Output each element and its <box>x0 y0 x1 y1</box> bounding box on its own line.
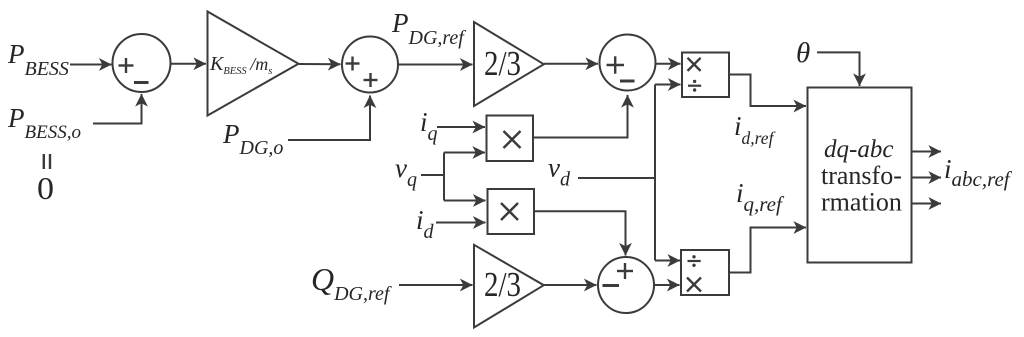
wire M1 output to S3 bottom <box>533 95 628 138</box>
wire M2 output to S4 top <box>534 211 626 255</box>
plus sign left in S2 <box>346 57 360 71</box>
wire v_d vertical bus <box>654 85 656 261</box>
wire v_d to divider D2 input <box>655 260 680 262</box>
gain block 2/3 upper <box>474 22 544 106</box>
wire output b <box>912 177 941 179</box>
divider block D2 <box>681 250 729 295</box>
svg-text:id: id <box>416 205 435 243</box>
wire P_DG,o to S2 <box>288 96 370 141</box>
divide sign in D1 <box>688 80 701 92</box>
svg-text:2/3: 2/3 <box>484 265 521 304</box>
times sign in D2 <box>687 278 701 292</box>
svg-text:θ: θ <box>796 37 810 69</box>
minus sign in S1 <box>134 81 149 84</box>
wire D2 output to dq-abc block <box>729 228 806 273</box>
svg-text:rmation: rmation <box>821 188 902 217</box>
summing junction S3 <box>600 35 656 91</box>
wire S4 to divider D2 <box>654 284 680 286</box>
divider block D1 <box>682 53 729 98</box>
wire v_d to divider D1 input <box>655 84 681 86</box>
wire gain 2/3 to summing junction S3 <box>544 63 598 65</box>
wire output a <box>912 151 941 153</box>
wire gain 2/3 lower to summing junction S4 <box>544 284 597 286</box>
gain block K_BESS/m_s <box>208 12 299 116</box>
wire S3 to divider D1 <box>656 63 681 65</box>
svg-text:KBESS /ms: KBESS /ms <box>209 53 272 77</box>
wire i_d to multiplier M2 <box>436 222 486 224</box>
svg-text:id,ref: id,ref <box>734 111 776 148</box>
wire v_q stub <box>421 174 444 176</box>
wire P_BESS to summing junction S1 <box>70 64 112 66</box>
summing junction S1 <box>113 34 171 92</box>
svg-text:iabc,ref: iabc,ref <box>944 154 1013 191</box>
svg-text:vd: vd <box>548 153 571 191</box>
multiplier M1 <box>487 116 534 162</box>
svg-text:vq: vq <box>395 153 417 191</box>
plus sign bottom in S2 <box>364 73 378 87</box>
plus sign in S4 <box>617 263 633 279</box>
divide sign in D2 <box>688 255 701 267</box>
wire output c <box>912 203 941 205</box>
wire D1 output to dq-abc block <box>729 75 806 107</box>
summing junction S2 <box>342 37 398 93</box>
wire Q_DG,ref to gain block 2/3 lower <box>399 284 473 286</box>
svg-text:PDG,o: PDG,o <box>222 119 283 159</box>
svg-text:PBESS,o: PBESS,o <box>7 103 81 143</box>
minus sign in S4 <box>603 284 620 287</box>
dq-abc transformation block <box>808 88 912 263</box>
wire P_BESS,o to S1 <box>93 94 142 124</box>
wire v_q to M2 <box>444 200 486 202</box>
summing junction S4 <box>598 257 654 313</box>
wire v_d horizontal <box>578 177 655 179</box>
times sign in D1 <box>688 58 701 71</box>
minus sign in S3 <box>620 80 635 83</box>
svg-text:PBESS: PBESS <box>7 39 69 80</box>
svg-text:dq-abc: dq-abc <box>824 136 893 163</box>
svg-text:PDG,ref: PDG,ref <box>391 8 466 49</box>
svg-text:transfo-: transfo- <box>821 161 902 190</box>
svg-text:iq: iq <box>420 107 438 145</box>
plus sign in S1 <box>119 58 134 73</box>
multiplier M2 <box>488 189 535 234</box>
wire i_q to multiplier M1 <box>437 126 485 128</box>
svg-text:2/3: 2/3 <box>484 44 521 83</box>
svg-text:QDG,ref: QDG,ref <box>311 261 392 305</box>
plus sign in S3 <box>607 56 625 73</box>
wire v_q to M1 <box>444 152 485 154</box>
times sign in M2 <box>501 203 518 220</box>
svg-text:iq,ref: iq,ref <box>736 178 785 216</box>
svg-text:0: 0 <box>37 170 54 206</box>
equals sign (rotated) <box>44 154 50 169</box>
wire gain K to summing junction S2 <box>299 63 341 65</box>
wire theta to dq-abc block <box>817 52 860 86</box>
wire v_q branch vertical <box>443 153 445 201</box>
times sign in M1 <box>504 131 521 148</box>
wire S1 to gain block K <box>171 63 207 65</box>
gain block 2/3 lower <box>474 245 544 328</box>
wire S2 to gain block 2/3 upper <box>398 64 473 66</box>
